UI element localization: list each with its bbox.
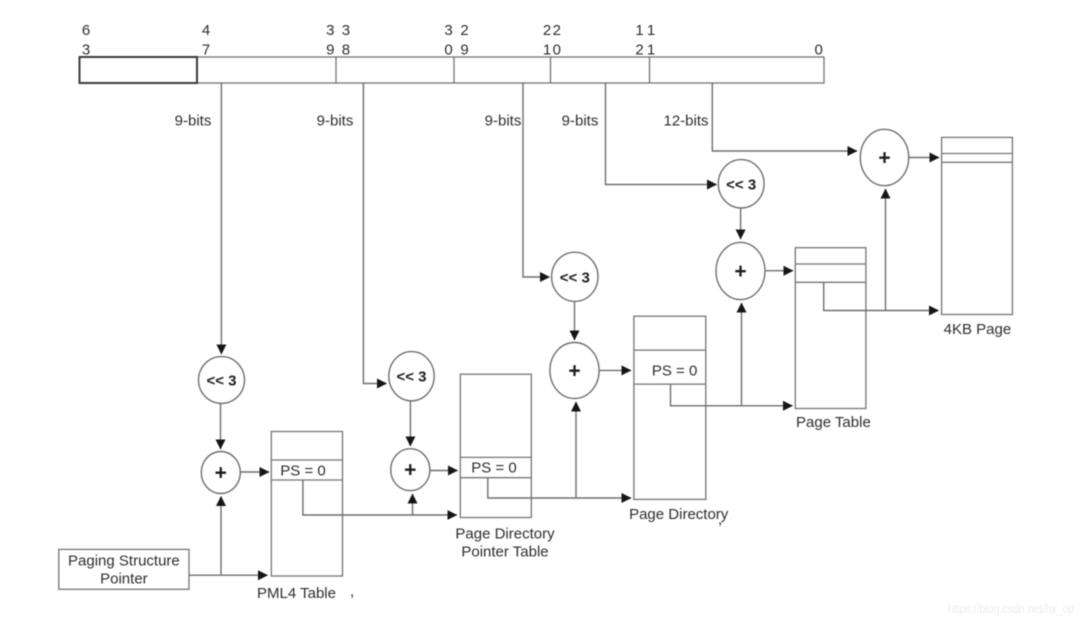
bit number 38	[342, 22, 350, 58]
shifter U1 <<3	[199, 357, 245, 404]
svg-text:0: 0	[553, 41, 561, 58]
page table box	[795, 248, 866, 409]
wire pointer box to PML4 and adder1	[189, 574, 268, 576]
bit field 63-48 box (bold)	[80, 57, 198, 83]
PML4 entry row PS=0	[271, 460, 342, 480]
adder A3 +	[550, 343, 599, 399]
svg-text:Page Directory: Page Directory	[455, 526, 555, 543]
bit number 11	[647, 22, 655, 58]
svg-text:9-bits: 9-bits	[317, 113, 354, 130]
svg-text:<< 3: << 3	[396, 369, 426, 386]
wire adder5 to 4KB page	[909, 157, 939, 159]
adder A1 +	[201, 452, 240, 494]
svg-text:9-bits: 9-bits	[485, 113, 522, 130]
svg-text:3: 3	[82, 41, 90, 58]
svg-text:9-bits: 9-bits	[562, 113, 599, 130]
svg-text:0: 0	[444, 41, 452, 58]
PML4 table box	[271, 432, 342, 577]
svg-text:PML4 Table: PML4 Table	[257, 585, 336, 602]
svg-text:3: 3	[342, 22, 350, 39]
svg-text:4KB Page: 4KB Page	[944, 321, 1012, 338]
svg-text:PS = 0: PS = 0	[471, 460, 516, 477]
svg-text:1: 1	[635, 22, 643, 39]
wire adder2 to PDPT entry	[430, 470, 458, 472]
shifter U2 <<3	[389, 352, 434, 401]
shifter U4 <<3	[718, 160, 764, 208]
wire branch up into adder1	[220, 497, 222, 576]
4KB page box	[942, 137, 1013, 314]
svg-text:2: 2	[553, 22, 561, 39]
wire page table entry out to 4KB page and adder5	[824, 282, 939, 310]
wire field1 down to shifter1	[220, 83, 222, 354]
svg-text:+: +	[878, 147, 890, 170]
svg-text:,: ,	[718, 511, 722, 528]
svg-text:3: 3	[326, 22, 334, 39]
svg-text:12-bits: 12-bits	[663, 113, 708, 130]
adder A2 +	[391, 449, 430, 491]
adder A5 +	[860, 129, 908, 185]
wire field5 down to adder5	[712, 83, 857, 151]
svg-text:+: +	[568, 360, 580, 383]
bit number 63	[82, 22, 90, 58]
bar divider 11/12	[649, 57, 651, 83]
svg-text:Paging Structure: Paging Structure	[68, 553, 180, 570]
wire PML4 entry out to PDPT and adder2	[303, 480, 457, 515]
page directory table box	[634, 316, 706, 499]
svg-text:+: +	[215, 462, 227, 485]
svg-text:0: 0	[815, 41, 823, 58]
bit number 47	[202, 22, 210, 58]
wire shifter4 to adder4	[740, 208, 742, 239]
bit number 39	[326, 22, 334, 58]
wire branch up into adder3	[575, 402, 577, 498]
svg-text:+: +	[734, 260, 746, 283]
page table entry row	[795, 264, 866, 282]
wire field4 down to shifter4	[606, 83, 717, 185]
wire shifter2 to adder2	[409, 401, 411, 446]
svg-text:,: ,	[350, 583, 354, 600]
wire branch up into adder2	[412, 494, 414, 515]
4KB page entry row	[942, 154, 1013, 163]
wire branch up into adder5	[885, 189, 887, 311]
wire adder3 to PD entry	[599, 369, 631, 371]
svg-text:6: 6	[82, 22, 90, 39]
svg-text:Page Directory: Page Directory	[629, 506, 729, 523]
bit number 29	[460, 22, 468, 58]
svg-text:PS = 0: PS = 0	[652, 363, 697, 380]
bit number 20	[553, 22, 561, 58]
bit number 21	[543, 22, 551, 58]
bit number 30	[444, 22, 452, 58]
svg-text:<< 3: << 3	[206, 373, 236, 390]
wire branch up into adder4	[741, 303, 743, 406]
wire PD entry out to page table and adder4	[671, 384, 793, 406]
svg-text:2: 2	[635, 41, 643, 58]
wire shifter1 to adder1	[220, 403, 222, 449]
label Page Directory Pointer Table	[455, 526, 555, 561]
bit number 12	[635, 22, 643, 58]
wire adder1 to PML4 entry	[240, 471, 269, 473]
svg-text:1: 1	[543, 41, 551, 58]
svg-text:Pointer Table: Pointer Table	[461, 544, 548, 561]
svg-text:+: +	[404, 459, 416, 482]
paging structure pointer box	[59, 549, 189, 589]
wire shifter3 to adder3	[574, 301, 576, 340]
svg-text:8: 8	[342, 41, 350, 58]
virtual address bar	[197, 57, 824, 83]
svg-text:1: 1	[647, 22, 655, 39]
wire PDPT entry out to PD and adder3	[488, 478, 631, 498]
svg-text:https://blog.csdn.net/hx_op: https://blog.csdn.net/hx_op	[948, 601, 1074, 616]
adder A4 +	[716, 242, 765, 299]
svg-text:7: 7	[202, 41, 210, 58]
wire adder4 to page table entry	[765, 270, 793, 272]
bit number 0	[815, 41, 823, 58]
svg-text:3: 3	[444, 22, 452, 39]
svg-text:1: 1	[647, 41, 655, 58]
svg-text:2: 2	[543, 22, 551, 39]
svg-text:<< 3: << 3	[560, 269, 590, 286]
svg-text:Page Table: Page Table	[796, 414, 871, 431]
wire field3 down to shifter3	[523, 83, 550, 277]
bar divider 29/30	[453, 57, 455, 83]
svg-text:9-bits: 9-bits	[175, 113, 212, 130]
shifter U3 <<3	[552, 252, 598, 301]
svg-text:9: 9	[326, 41, 334, 58]
svg-text:2: 2	[460, 22, 468, 39]
svg-text:4: 4	[202, 22, 210, 39]
bar divider 38/39	[335, 57, 337, 83]
svg-text:<< 3: << 3	[726, 176, 756, 193]
PDPT table box	[460, 374, 531, 517]
wire field2 down to shifter2	[363, 83, 386, 384]
svg-text:Pointer: Pointer	[100, 571, 148, 588]
svg-text:PS = 0: PS = 0	[280, 463, 325, 480]
PDPT entry row PS=0	[460, 457, 531, 477]
svg-text:9: 9	[460, 41, 468, 58]
bar divider 20/21	[550, 57, 552, 83]
PD entry row PS=0	[634, 350, 706, 384]
